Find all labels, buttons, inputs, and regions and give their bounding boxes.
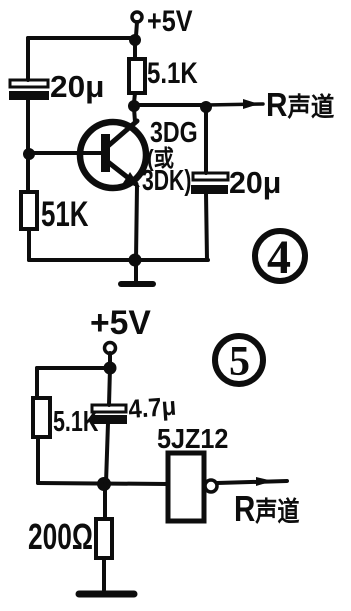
value label 20u (C2) <box>229 165 281 200</box>
resistor R4 200ohm body <box>96 519 112 558</box>
wire: C1 bottom down to node B <box>26 99 30 152</box>
wire: node B right to transistor base <box>29 151 101 155</box>
resistor R3 5.1K body <box>33 398 50 437</box>
wire: terminal down to node F <box>108 353 112 364</box>
svg-text:5JZ12: 5JZ12 <box>157 423 228 455</box>
ground symbol (circuit 4) <box>121 260 153 284</box>
svg-text:20μ: 20μ <box>229 165 281 200</box>
svg-text:5: 5 <box>229 339 250 385</box>
transistor Q1 circle <box>80 122 146 188</box>
transistor Q1 collector stroke <box>108 121 137 146</box>
bottom rail wire of circuit 5 <box>38 483 168 484</box>
node B junction dot (base node) <box>23 148 35 160</box>
node A junction dot <box>129 34 141 46</box>
capacitor C3 4.7u bottom plate <box>92 416 126 423</box>
capacitor C1 20u top plate <box>10 80 48 87</box>
svg-text:4: 4 <box>267 231 291 284</box>
node D junction dot below R1 <box>128 100 140 112</box>
node C junction dot on ground rail <box>129 254 142 267</box>
wire: collector up to node D <box>134 108 135 122</box>
wire: gate output right with arrow (circuit 5) <box>217 477 287 486</box>
svg-text:3DK): 3DK) <box>142 165 191 197</box>
value label 4.7u (C3) <box>127 392 177 424</box>
gate U1 5JZ12 body <box>168 453 204 521</box>
wire: C3 bottom down to node G <box>106 423 108 483</box>
figure number circle 5 <box>215 336 263 385</box>
value label 51K (R2) <box>41 194 88 234</box>
capacitor C1 20u bottom plate <box>10 92 48 99</box>
wire: left corner down to resistor R3 <box>35 368 39 398</box>
wire: R4 bottom down to ground <box>102 558 106 590</box>
+5V terminal circle (circuit 5) <box>105 343 116 354</box>
transistor type label 3DK) <box>142 165 191 197</box>
svg-text:4.7μ: 4.7μ <box>127 392 177 424</box>
gate U1 5JZ12 label <box>157 423 228 455</box>
wire: R3 bottom down to bottom rail <box>36 437 40 483</box>
node F junction dot <box>104 362 117 375</box>
value label 5.1K (R3) <box>53 406 99 438</box>
figure number circle 4 <box>255 231 305 284</box>
transistor type label 3DG <box>150 115 198 148</box>
gate U1 output bubble <box>205 480 217 492</box>
wire: node E down to capacitor C2 <box>204 107 208 173</box>
svg-text:51K: 51K <box>41 194 88 234</box>
wire: emitter down to node C <box>136 186 137 260</box>
wire: node A left along top <box>28 36 135 40</box>
+5V terminal circle (circuit 4) <box>132 12 142 22</box>
svg-text:20μ: 20μ <box>50 69 105 104</box>
transistor Q1 base bar <box>101 134 110 172</box>
wire: node F down to capacitor C3 <box>109 368 110 405</box>
svg-text:R声道: R声道 <box>266 87 334 124</box>
svg-text:3DG: 3DG <box>150 115 198 148</box>
capacitor C2 20u top plate <box>193 173 228 180</box>
wire: +5V terminal down to node A <box>136 22 137 36</box>
svg-text:R声道: R声道 <box>234 488 300 528</box>
wire: node G down to resistor R4 <box>103 484 107 519</box>
wire: C2 bottom down to ground rail <box>206 193 207 260</box>
wire: R2 bottom down to ground rail <box>27 229 31 260</box>
svg-text:+5V: +5V <box>90 304 151 342</box>
svg-text:200Ω: 200Ω <box>28 516 93 557</box>
ground symbol (circuit 5) <box>79 591 134 598</box>
svg-text:+5V: +5V <box>147 4 193 38</box>
resistor R2 51K body <box>21 192 37 229</box>
node G junction dot <box>97 477 111 491</box>
svg-text:5.1K: 5.1K <box>147 55 198 89</box>
output label R channel (circuit 4) <box>266 87 334 124</box>
wire: node D right to node E <box>134 103 206 107</box>
wire: bottom ground rail of circuit 4 <box>29 258 208 262</box>
value label 5.1K (R1) <box>147 55 198 89</box>
wire: top-left corner down to capacitor C1 <box>26 38 30 80</box>
capacitor C2 20u bottom plate <box>192 186 227 193</box>
resistor R1 5.1K body <box>129 40 145 103</box>
wire: node B down to resistor R2 <box>26 154 30 192</box>
wire: node E right to output arrow (circuit 4) <box>206 99 263 109</box>
transistor Q1 emitter stroke with arrow <box>108 162 140 187</box>
+5V label (circuit 4) <box>147 4 193 38</box>
value label 200ohm (R4) <box>28 516 93 557</box>
output label R channel (circuit 5) <box>234 488 300 528</box>
node E junction dot <box>200 101 212 113</box>
transistor type label (or <box>147 145 174 172</box>
capacitor C3 4.7u top plate <box>92 405 126 412</box>
wire: node F left along top (circuit 5) <box>37 366 110 370</box>
value label 20u (C1) <box>50 69 105 104</box>
+5V label (circuit 5) <box>90 304 151 342</box>
